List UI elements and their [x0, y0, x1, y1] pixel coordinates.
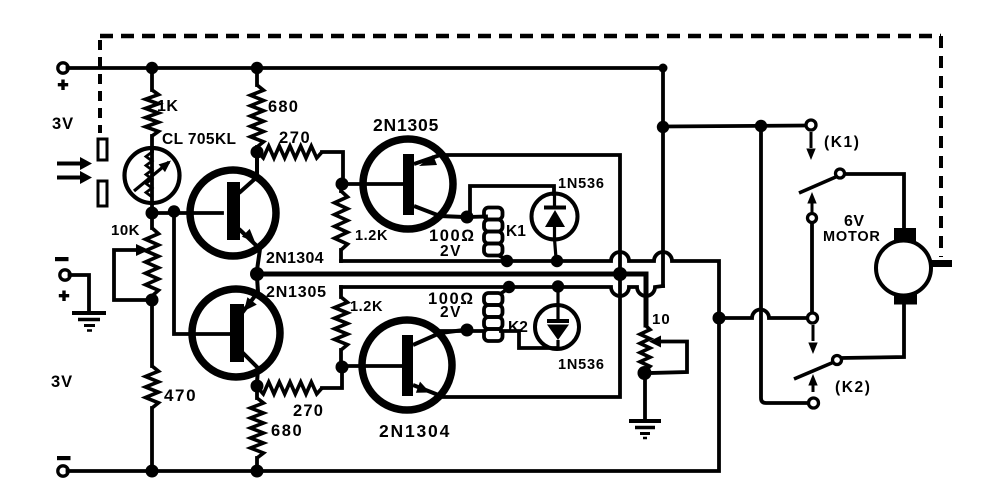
battery center tap terminal (- above, + below): [55, 257, 70, 301]
node: K1 contact feed junction: [657, 121, 669, 133]
svg-text:3V: 3V: [51, 373, 73, 391]
wire: node down to Q2 base: [174, 212, 231, 335]
wire: K1 lower contact to K2 upper contact: [810, 223, 814, 313]
relay coil K1 (100 ohm 2V): [467, 208, 507, 261]
node: 680/270 junction (Q1 collector): [251, 146, 264, 159]
relay coil K2 (100 ohm 2V): [438, 288, 556, 348]
node: K1 coil bottom: [501, 255, 513, 267]
dashed enclosure (light housing / chassis outline): [100, 36, 941, 257]
svg-text:470: 470: [164, 386, 197, 405]
node: 470 bottom rail junction: [146, 465, 159, 478]
node: K1/K2 pole feed junction: [755, 120, 767, 132]
node: Q3 emitter junction: [461, 211, 474, 224]
resistor 1.2K (top): [335, 190, 348, 261]
resistor 1.2K (bottom): [335, 287, 348, 367]
diode D2 1N536 (bottom): [535, 287, 579, 349]
node: Q3 base junction: [336, 178, 349, 191]
resistor 270 (bottom): [258, 369, 342, 394]
svg-text:1N536: 1N536: [558, 357, 605, 373]
light arrows: [57, 157, 92, 184]
svg-text:270: 270: [279, 129, 311, 147]
node: 680 top junction: [251, 62, 263, 74]
potentiometer 10K: [114, 228, 159, 366]
node: D2 top: [552, 280, 564, 292]
wire: K1 fixed contact feed: [663, 126, 805, 127]
svg-text:1.2K: 1.2K: [350, 299, 383, 315]
svg-text:1K: 1K: [157, 98, 178, 115]
wire: photocell node to Q1 base: [152, 211, 222, 215]
wire: K2 cell top rail with downward hops, joins +feed riser: [341, 286, 663, 296]
diode D1 1N536 (top): [467, 186, 578, 258]
node: 10K bottom junction: [146, 294, 159, 307]
battery 3V lower: - terminal: [57, 456, 71, 476]
resistor 680 (top): [251, 68, 264, 152]
svg-text:CL 705KL: CL 705KL: [162, 131, 236, 148]
wire: K2 top contact feed with hop: [719, 310, 806, 319]
transistor Q2 2N1305 (lower left): [192, 277, 280, 383]
node: base-feed junction: [168, 205, 180, 217]
svg-text:MOTOR: MOTOR: [823, 229, 881, 245]
node: rheostat bottom junction: [638, 366, 652, 380]
svg-text:2V: 2V: [440, 304, 462, 321]
wire: +feed riser (top rail to K2 cell rail): [661, 68, 665, 286]
svg-text:10K: 10K: [111, 222, 140, 239]
wire: motor bottom to K2 blade: [842, 304, 904, 358]
svg-text:K2: K2: [508, 319, 528, 336]
node: emitter bus junction: [613, 267, 627, 281]
svg-text:3V: 3V: [52, 115, 74, 133]
node: K2 coil top: [503, 281, 515, 293]
svg-text:680: 680: [268, 98, 299, 116]
transistor Q1 2N1304 (upper left): [190, 154, 276, 270]
transistor Q4 2N1304 (lower middle): [342, 320, 464, 410]
wire: bottom negative rail: [68, 321, 720, 471]
svg-text:680: 680: [271, 422, 303, 440]
resistor 470: [146, 366, 159, 471]
light slit aperture (two slot rectangles): [98, 139, 107, 206]
node: 1K top junction: [146, 62, 158, 74]
wire: pole feed down to K2 bottom contact: [761, 126, 808, 403]
ground (rheostat): [629, 373, 661, 438]
svg-text:1N536: 1N536: [558, 176, 605, 192]
node: Q4 base junction: [336, 361, 349, 374]
svg-text:6V: 6V: [844, 213, 865, 230]
svg-text:K1: K1: [506, 223, 526, 240]
wire: K1 blade to motor top: [845, 174, 904, 230]
svg-text:(K2): (K2): [835, 379, 872, 396]
svg-text:2N1304: 2N1304: [266, 250, 324, 267]
svg-text:1.2K: 1.2K: [355, 228, 388, 244]
resistor 1K: [146, 68, 159, 151]
node: photocell bottom junction: [146, 207, 159, 220]
resistor 270 (top): [258, 146, 343, 181]
node: K2 contact feed junction: [713, 312, 726, 325]
wire: Q3 collector rail (top cell loop): [441, 155, 620, 268]
battery 3V upper: + terminal: [58, 63, 68, 90]
wire: K1 cell bottom rail with crossover hops: [341, 252, 719, 315]
node: D1 bottom: [551, 255, 563, 267]
svg-text:270: 270: [293, 402, 324, 420]
motor 6V: [876, 228, 952, 305]
svg-text:2N1304: 2N1304: [379, 421, 451, 441]
node: Q2 emitter junction: [251, 380, 264, 393]
relay contacts K1: [799, 120, 845, 223]
wire: top positive rail: [68, 66, 664, 70]
node: Q1 emitter / Q2 collector junction: [250, 267, 264, 281]
photocell CL705KL: [125, 148, 180, 228]
svg-text:10: 10: [652, 311, 671, 328]
node: top rail corner: [659, 64, 668, 73]
svg-text:(K1): (K1): [824, 134, 861, 151]
ground (battery center tap): [70, 275, 107, 331]
transistor Q3 2N1305 (upper middle): [342, 139, 464, 229]
svg-text:2N1305: 2N1305: [373, 115, 439, 135]
relay contacts K2: [794, 313, 842, 408]
svg-text:2V: 2V: [440, 243, 462, 260]
node: 680 bottom rail junction: [251, 465, 264, 478]
resistor 680 (bottom): [251, 386, 264, 471]
rheostat 10: [640, 325, 687, 373]
wire: emitter bus (Q1e/Q2c to right): [257, 274, 646, 325]
wire: Q4 collector rail (bottom cell loop): [441, 280, 620, 397]
svg-text:2N1305: 2N1305: [266, 284, 327, 301]
node: Q4 emitter junction: [461, 324, 474, 337]
